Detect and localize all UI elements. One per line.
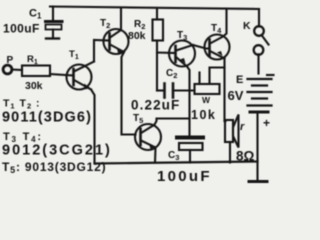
svg-text:80k: 80k bbox=[128, 30, 146, 42]
svg-text:E: E bbox=[236, 74, 243, 86]
svg-text:9012(3CG21): 9012(3CG21) bbox=[2, 143, 112, 159]
svg-text:9011(3DG6): 9011(3DG6) bbox=[2, 110, 92, 126]
svg-text:6V: 6V bbox=[228, 88, 244, 103]
svg-text:T5: 9013(3DG12): T5: 9013(3DG12) bbox=[2, 160, 106, 175]
svg-text:R1: R1 bbox=[27, 54, 38, 66]
svg-text:K: K bbox=[243, 20, 251, 32]
svg-text:8Ω: 8Ω bbox=[236, 149, 255, 164]
svg-text:T2: T2 bbox=[100, 18, 110, 30]
svg-text:100uF: 100uF bbox=[157, 168, 212, 185]
svg-text:r: r bbox=[240, 121, 245, 133]
svg-text:P: P bbox=[7, 55, 14, 66]
svg-text:10k: 10k bbox=[191, 108, 216, 122]
svg-text:W: W bbox=[202, 95, 211, 105]
svg-text:C1: C1 bbox=[29, 8, 42, 21]
svg-text:30k: 30k bbox=[25, 80, 43, 92]
svg-text:T5: T5 bbox=[133, 113, 143, 125]
svg-text:T3: T3 bbox=[177, 30, 187, 42]
svg-text:C3: C3 bbox=[168, 150, 179, 162]
svg-text:T4: T4 bbox=[211, 23, 222, 35]
svg-text:0.22uF: 0.22uF bbox=[131, 98, 180, 113]
svg-text:T1: T1 bbox=[69, 49, 79, 61]
svg-text:C2: C2 bbox=[166, 68, 177, 80]
svg-text:100uF: 100uF bbox=[3, 22, 40, 36]
svg-text:+: + bbox=[263, 116, 270, 130]
